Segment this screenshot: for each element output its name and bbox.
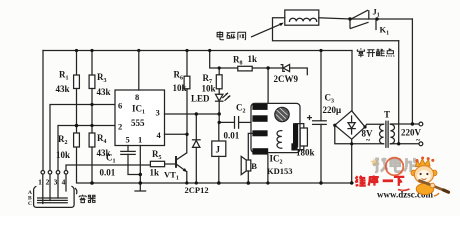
LED — [191, 89, 230, 123]
ground symbol — [135, 183, 146, 191]
svg-text:3: 3 — [54, 178, 58, 187]
svg-text:B: B — [251, 161, 257, 171]
music IC2 KD153 module — [251, 103, 300, 176]
svg-text:1k: 1k — [248, 54, 258, 64]
svg-text:6: 6 — [118, 101, 122, 111]
container (容器) vessel — [34, 186, 75, 207]
terminal 3 — [54, 171, 60, 199]
svg-text:1: 1 — [138, 135, 142, 145]
svg-text:J: J — [216, 145, 221, 155]
terminal 2 — [46, 171, 52, 201]
wire: bottom ground rail — [77, 147, 354, 183]
svg-text:2CP12: 2CP12 — [185, 185, 209, 195]
resistor R5 — [150, 149, 177, 178]
svg-text:1: 1 — [38, 178, 42, 187]
terminal 4 — [62, 171, 68, 192]
red underline swoosh — [398, 189, 410, 190]
svg-text:4: 4 — [62, 178, 66, 187]
label 常开触点 — [357, 48, 394, 57]
label A B C on vessel — [28, 190, 32, 207]
capacitor C3 electrolytic — [308, 51, 342, 184]
zener diode 2CW9 — [274, 64, 308, 84]
relay contact J1 — [350, 7, 412, 20]
wire: rail jog down to R7/R8 — [210, 51, 238, 69]
red text 维库一下 — [355, 176, 404, 186]
resistor R4 — [89, 133, 110, 183]
relay coil J — [212, 122, 226, 183]
speaker B — [241, 133, 257, 183]
resistor 180k — [296, 124, 315, 158]
svg-text:3: 3 — [156, 108, 160, 118]
resistor R6 — [173, 51, 190, 135]
resistor R7 — [202, 68, 223, 94]
svg-text:10k: 10k — [202, 84, 216, 94]
wire: 555 pin2 line to terminal 3 — [58, 126, 115, 171]
solenoid valve box with coil — [273, 10, 399, 41]
mains terminal top — [419, 122, 423, 126]
wire: KD153 pad 4 to ground rail — [267, 155, 269, 183]
svg-text:LED: LED — [191, 94, 210, 104]
resistor R8 — [233, 54, 283, 71]
svg-text:8: 8 — [135, 92, 139, 102]
terminal 1 — [38, 171, 44, 204]
resistor R3 — [89, 51, 110, 134]
wire: mains bottom terminal riser (wire A) — [398, 41, 400, 144]
svg-text:43k: 43k — [56, 84, 70, 94]
resistor R2 — [56, 133, 79, 160]
capacitor C2 — [219, 103, 252, 141]
svg-text:5: 5 — [126, 135, 130, 145]
wire: +V top rail — [43, 50, 352, 52]
wire: pin 4 line — [165, 133, 188, 135]
svg-text:220μ: 220μ — [323, 105, 342, 115]
capacitor C1 — [100, 146, 141, 178]
svg-text:43k: 43k — [97, 87, 111, 97]
wire: pin 3 output line — [165, 113, 220, 115]
wire: pin 8 to rail — [138, 51, 140, 91]
node: junction dots left section — [75, 49, 141, 185]
svg-text:C: C — [28, 201, 32, 207]
gray outline text 找电片 with orange ring logo — [373, 158, 419, 173]
wire: R8 node down to KD153 pad 1 — [267, 68, 269, 104]
mascot figure — [411, 157, 449, 197]
svg-text:T: T — [384, 110, 390, 120]
svg-text:0.01: 0.01 — [224, 131, 240, 141]
label 容器 (container) — [75, 188, 95, 202]
svg-text:0.01: 0.01 — [100, 168, 116, 178]
node: junction dots mid/right — [139, 17, 415, 185]
wire: terminal 4 line to R5 — [66, 165, 150, 170]
wire: 555 pin6 line to terminal 2 — [50, 105, 115, 171]
wire: rail right end down to bridge top — [351, 51, 353, 112]
wire: contacts to mains top terminal — [411, 19, 413, 124]
wire: pin 1 to ground rail — [139, 146, 141, 184]
svg-text:2CW9: 2CW9 — [274, 74, 299, 84]
wire: 8V winding bottom loop to bridge left — [335, 125, 384, 144]
svg-text:KD153: KD153 — [267, 166, 293, 176]
transistor VT1 — [164, 134, 187, 183]
svg-text:1k: 1k — [150, 168, 160, 178]
svg-text:10k: 10k — [173, 83, 187, 93]
svg-text:180k: 180k — [296, 148, 315, 158]
resistor R1 — [56, 51, 80, 134]
wire: left rail down to terminal 1 — [42, 51, 44, 171]
label 220V — [401, 128, 422, 145]
bridge rectifier — [335, 111, 365, 183]
watermark — [355, 157, 448, 200]
transformer T — [362, 110, 420, 148]
label 电磁阀 with arrow — [217, 31, 246, 40]
svg-text:2: 2 — [118, 122, 122, 132]
op-amp/timer IC1 555 — [115, 90, 165, 146]
diode 2CP12 — [193, 114, 201, 183]
svg-text:555: 555 — [131, 118, 145, 128]
mains terminal bottom — [419, 142, 423, 146]
svg-text:2: 2 — [46, 178, 50, 187]
relay contact K1 — [350, 19, 389, 37]
